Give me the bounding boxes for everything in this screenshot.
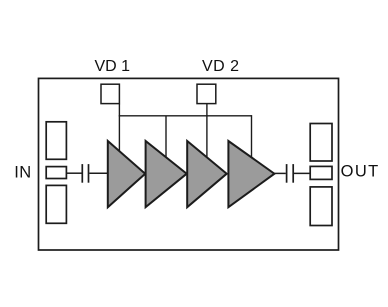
amplifier A4 (228, 141, 274, 207)
amplifier A1 (108, 141, 145, 207)
pad OUT top (310, 124, 332, 162)
wire IN pad to C1 (66, 172, 81, 174)
pad IN (signal) (46, 167, 66, 179)
svg-text:VD 2: VD 2 (202, 58, 240, 75)
wire supply bus (119, 115, 252, 117)
capacitor C2 (287, 164, 294, 183)
pad IN bottom (46, 185, 66, 223)
pad VD1 (101, 84, 119, 103)
pad VD2 (197, 84, 216, 103)
wire bus drop to amp A4 (251, 115, 253, 158)
chip outline (39, 78, 339, 250)
capacitor C1 (82, 164, 88, 183)
wire bus drop to amp A2 (165, 116, 167, 159)
wire amp A4 to C2 (274, 172, 285, 174)
svg-text:OUT: OUT (341, 162, 380, 180)
svg-text:VD 1: VD 1 (95, 58, 131, 75)
wire C1 to amp A1 (89, 172, 108, 174)
wire VD2 drop to amp A3 (206, 104, 208, 159)
wire VD1 drop to amp A1 (118, 104, 120, 152)
svg-text:IN: IN (14, 163, 32, 181)
pad OUT bottom (310, 187, 332, 226)
pad OUT (signal) (310, 166, 332, 179)
amplifier A3 (187, 141, 227, 207)
wire C2 to OUT pad (294, 172, 310, 174)
amplifier A2 (146, 141, 187, 207)
pad IN top (46, 122, 66, 160)
